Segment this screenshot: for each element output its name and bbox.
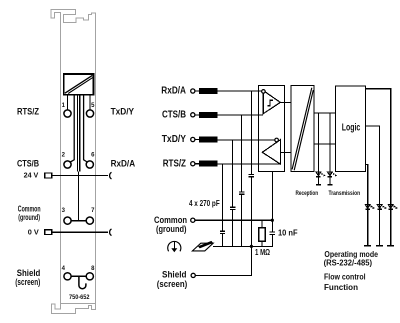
wire logic to function LED — [365, 89, 390, 205]
wire: box to contact 1 — [67, 95, 69, 110]
wire: box to contact 6 — [84, 95, 88, 162]
wire RxD/A to receiver input — [218, 90, 262, 92]
terminal module 750-652 housing outline with DIN-rail clips — [51, 9, 95, 313]
wire common rail — [195, 219, 273, 221]
wire logic to reception LED — [317, 113, 319, 172]
wire: box to contact 5 — [89, 95, 91, 110]
wire isolation to logic (transmit path) — [314, 143, 336, 145]
svg-text:CTS/B: CTS/B — [162, 109, 186, 120]
junction node shield riser — [250, 245, 253, 248]
svg-text:4 x 270 pF: 4 x 270 pF — [189, 198, 220, 208]
wire: box to common junction — [77, 95, 79, 172]
logic box — [336, 86, 366, 171]
svg-text:(ground): (ground) — [156, 223, 187, 234]
contact 2 — [64, 161, 71, 168]
svg-text:750-652: 750-652 — [69, 294, 90, 301]
svg-text:RTS/Z: RTS/Z — [17, 105, 39, 116]
svg-text:10 nF: 10 nF — [278, 227, 298, 237]
LED D4 flow control — [379, 209, 381, 245]
svg-text:(ground): (ground) — [18, 213, 40, 222]
svg-text:24 V: 24 V — [24, 171, 39, 180]
contact 7 — [86, 217, 93, 224]
wire: contact 3 to contact 7 — [71, 220, 86, 222]
svg-text:Logic: Logic — [342, 122, 361, 133]
svg-text:(RS-232/-485): (RS-232/-485) — [324, 258, 373, 267]
contact 8 — [86, 273, 93, 280]
chassis rail connection symbol — [192, 241, 213, 251]
wire driver input from isolation — [280, 151, 291, 153]
wire logic to mode LED (bottom notch) — [365, 164, 367, 204]
svg-text:TxD/Y: TxD/Y — [111, 105, 135, 116]
isolation barrier (galvanic separation) — [291, 86, 314, 172]
chassis/shield rail wire — [213, 245, 273, 247]
0V power feed: square contact, jumper wire, spring contact — [45, 230, 52, 235]
wire shield to chassis rail — [195, 246, 251, 275]
junction node: common / transceiver / RC — [271, 219, 274, 222]
svg-text:RxD/A: RxD/A — [111, 157, 136, 168]
svg-text:Flow control: Flow control — [324, 272, 366, 281]
svg-text:(screen): (screen) — [15, 276, 40, 287]
svg-text:TxD/Y: TxD/Y — [162, 134, 187, 145]
contact 1 — [64, 110, 71, 117]
driver amp U3 — [262, 140, 280, 164]
svg-text:Transmission: Transmission — [329, 190, 361, 197]
wire logic to transmission LED — [329, 113, 331, 172]
svg-text:0 V: 0 V — [28, 227, 39, 236]
dropper TxD/Y with capacitor C2 (270 pF) — [232, 140, 234, 247]
LED D5 function — [390, 209, 392, 245]
dropper RxD/A with capacitor C4 (270 pF) — [250, 91, 252, 246]
svg-text:RxD/A: RxD/A — [161, 86, 186, 97]
electronics block U1 (box with diagonal) — [64, 74, 94, 95]
wire isolation to logic (receive path) — [314, 112, 336, 114]
svg-text:1 MΩ: 1 MΩ — [255, 247, 270, 257]
wire: contact 4 to contact 8 with shield spring hook — [71, 275, 86, 277]
transceiver common lead down to R/C junction — [271, 171, 273, 246]
LED D2 Transmission — [329, 177, 331, 185]
svg-text:Reception: Reception — [296, 190, 319, 197]
wire RTS/Z to driver output Z — [218, 163, 281, 165]
contact 4 — [64, 273, 71, 280]
wire CTS/B to receiver input — [218, 114, 264, 116]
dropper CTS/B with capacitor C3 (270 pF) — [241, 115, 243, 247]
24V power feed: square contact, jumper wire, spring contact — [45, 173, 52, 178]
svg-text:(screen): (screen) — [157, 278, 188, 289]
wire: box to contact 2 — [70, 95, 74, 162]
contact 3 — [64, 217, 71, 224]
contact 5 — [86, 110, 93, 117]
transceiver box — [258, 86, 284, 172]
receiver amp U2 with hysteresis symbol — [263, 91, 280, 114]
functional earth symbol — [168, 241, 181, 251]
contact 6 — [86, 161, 93, 168]
LED D1 Reception — [317, 177, 319, 185]
LED D3 operating mode — [367, 209, 369, 245]
dropper RTS/Z with capacitor C1 (270 pF) — [222, 164, 224, 247]
wire TxD/Y to driver output Y — [218, 139, 275, 141]
capacitor C5 10 nF — [270, 232, 276, 235]
svg-text:RTS/Z: RTS/Z — [163, 158, 186, 169]
svg-text:CTS/B: CTS/B — [17, 157, 39, 168]
svg-text:Function: Function — [324, 283, 358, 292]
svg-text:Common: Common — [18, 204, 41, 213]
resistor R1 1 MOhm — [261, 220, 263, 227]
wire logic to flow control LED — [365, 126, 379, 205]
wire receiver output to isolation — [280, 101, 291, 103]
